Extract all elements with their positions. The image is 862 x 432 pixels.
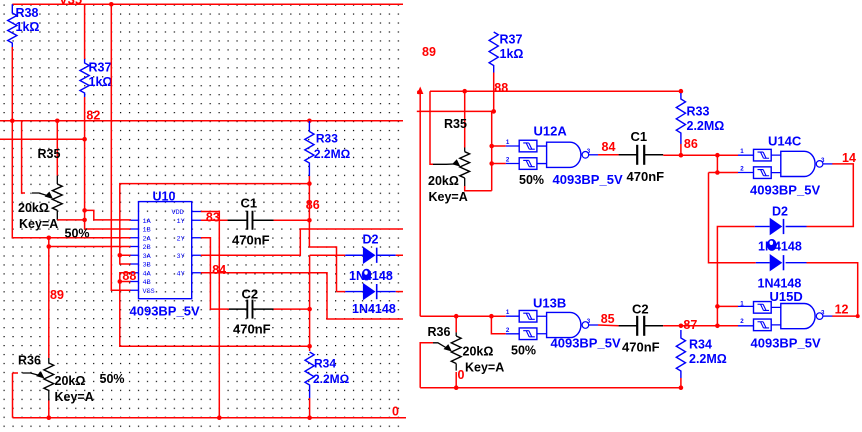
wire R33 to node 86 — [680, 144, 682, 155]
svg-text:2.2MΩ: 2.2MΩ — [313, 372, 350, 386]
junction C2 right — [307, 307, 312, 312]
wire R35 bottom lead — [56, 210, 58, 220]
wire diode2 anode lead (right) — [756, 262, 770, 264]
wire R36 bottom (right) — [455, 372, 457, 388]
svg-text:C1: C1 — [241, 195, 258, 210]
wire R35 box (right) — [430, 91, 433, 164]
svg-text:R37: R37 — [89, 61, 112, 75]
svg-text:83: 83 — [206, 210, 220, 224]
wire U15D in1 row — [717, 305, 738, 307]
svg-text:2: 2 — [506, 157, 510, 164]
wire ground rail (right) — [420, 387, 681, 389]
wire R37 down — [85, 97, 131, 229]
resistor R37 (right) — [489, 32, 498, 73]
diode 1N4148 (right second) — [770, 254, 783, 271]
junction R33 top / 82-row — [307, 119, 312, 124]
potentiometer R35 (right) — [460, 152, 470, 178]
junction U14C branch — [715, 153, 720, 158]
junction top rail — [109, 2, 114, 7]
resistor R37 (left) — [80, 59, 89, 97]
svg-text:3: 3 — [587, 148, 591, 155]
junction R34 top (right) — [679, 324, 684, 329]
svg-text:470nF: 470nF — [232, 232, 270, 247]
junction R33 bottom — [307, 181, 312, 186]
wire D2 anode lead — [345, 254, 363, 256]
wire node 86 row (right) — [663, 154, 738, 156]
wire jog to pin 1A — [85, 210, 131, 220]
svg-text:C1: C1 — [631, 129, 648, 144]
wire D2 anode lead (right) — [755, 226, 770, 228]
wire C1 right to node 86 — [274, 219, 310, 221]
wire D2 anode to 87 net — [717, 227, 754, 326]
wire R36 top lead (right) — [455, 316, 457, 332]
diode D2 (left) — [363, 247, 376, 264]
svg-text:2B: 2B — [143, 244, 151, 252]
wire node 82 row — [0, 120, 403, 122]
svg-text:3B: 3B — [143, 262, 151, 270]
wire wiper box down — [12, 373, 14, 418]
potentiometer R35 (left) — [52, 184, 62, 210]
wire C2 right to node 87 — [274, 308, 310, 310]
svg-text:C2: C2 — [632, 302, 649, 317]
IC U10 4093 quad NAND — [139, 202, 192, 299]
junction node 12 — [856, 314, 860, 318]
junction VDD-net rail — [217, 415, 222, 420]
svg-text:1A: 1A — [143, 218, 152, 226]
wire to U12A pin2 — [492, 163, 506, 165]
svg-text:R37: R37 — [500, 33, 523, 47]
svg-text:4093BP_5V: 4093BP_5V — [750, 182, 820, 197]
svg-text:4Y: 4Y — [177, 270, 185, 278]
junction 4B — [118, 279, 123, 284]
junction U12A in1 — [489, 144, 494, 149]
wire D2 cathode lead — [378, 254, 396, 256]
svg-text:Key=A: Key=A — [55, 390, 94, 404]
junction node at 210 — [82, 208, 87, 213]
svg-text:2.2MΩ: 2.2MΩ — [687, 119, 725, 133]
svg-text:0: 0 — [392, 405, 399, 419]
junction R33 top (right) — [679, 89, 684, 94]
stub U14C inputs — [738, 155, 754, 172]
svg-text:87: 87 — [683, 318, 697, 332]
junction R36 bottom (right) — [454, 385, 459, 390]
svg-text:50%: 50% — [519, 173, 544, 187]
svg-text:Key=A: Key=A — [429, 190, 468, 204]
svg-text:88: 88 — [494, 81, 508, 95]
svg-text:R34: R34 — [689, 338, 712, 352]
wire 1Y to C1 — [201, 219, 228, 221]
wire U14C in2 net — [716, 155, 718, 172]
wire R36 bottom black lead — [48, 391, 50, 401]
svg-text:3: 3 — [821, 309, 825, 316]
wire R35 top lead — [56, 121, 58, 176]
svg-text:R35: R35 — [38, 147, 61, 161]
svg-text:3: 3 — [587, 318, 591, 325]
stub U15D inputs — [738, 306, 754, 325]
wire R37 top lead — [84, 4, 86, 59]
svg-text:4B: 4B — [143, 279, 151, 287]
wire R36 wiper box (right) — [420, 343, 433, 388]
wire input net U12A — [417, 111, 492, 190]
wire 2Y to C2 — [201, 238, 229, 309]
overlap glyph (left) — [362, 269, 371, 281]
wire node 87 vertical — [309, 255, 311, 351]
svg-text:1kΩ: 1kΩ — [16, 20, 40, 34]
overlap glyph (right) — [767, 239, 777, 251]
junction U12A in2 — [489, 161, 494, 166]
svg-text:2: 2 — [740, 318, 744, 325]
svg-text:V35: V35 — [59, 0, 82, 7]
wire R37 down to input net — [493, 73, 495, 112]
svg-text:C2: C2 — [242, 287, 259, 302]
junction 2A/R36 — [47, 235, 52, 240]
svg-text:50%: 50% — [100, 372, 125, 386]
svg-text:Key=A: Key=A — [465, 361, 504, 375]
resistor R34 (left) — [305, 352, 314, 398]
wire R35 wiper box — [22, 121, 25, 193]
svg-text:R33: R33 — [316, 132, 338, 146]
junction 2B/R36 — [47, 244, 52, 249]
capacitor C1 (left) — [228, 211, 274, 230]
junction R37/139-row — [82, 137, 87, 142]
svg-text:20kΩ: 20kΩ — [18, 201, 49, 215]
wire node89 vertical — [419, 91, 421, 316]
svg-text:50%: 50% — [511, 344, 536, 358]
junction R36 top (right) — [454, 314, 459, 319]
op-gate U12A — [537, 146, 547, 164]
svg-text:2.2MΩ: 2.2MΩ — [689, 352, 727, 366]
wire R35 top lead (right) — [464, 91, 466, 147]
svg-text:R35: R35 — [444, 117, 467, 131]
svg-text:1Y: 1Y — [177, 218, 185, 226]
junction R33 bottom (right) — [679, 153, 684, 158]
svg-text:2A: 2A — [143, 235, 152, 243]
wire R35 bottom black lead (right) — [464, 178, 466, 186]
wire 4B branch — [120, 281, 131, 283]
svg-text:D2: D2 — [772, 205, 788, 219]
wire 4Y down to cut row — [201, 273, 403, 319]
wire diode2 cathode lead — [378, 291, 396, 293]
wire R38 to 2A corner — [12, 47, 131, 238]
junction U14C in2 — [715, 170, 720, 175]
svg-text:88: 88 — [122, 269, 136, 283]
svg-text:U12A: U12A — [534, 124, 568, 139]
svg-text:470nF: 470nF — [627, 169, 665, 184]
wire R36 bottom black lead (right) — [455, 364, 457, 371]
svg-text:84: 84 — [602, 140, 616, 154]
wire 3Y up to cut row — [201, 229, 403, 255]
op-gate U15D — [771, 307, 781, 325]
svg-text:U15D: U15D — [770, 289, 803, 304]
wire diode2 to node 12 — [807, 263, 858, 316]
potentiometer R36 (left) — [44, 363, 54, 391]
op-gate U14C — [771, 155, 781, 173]
svg-text:0: 0 — [458, 368, 465, 382]
svg-text:VSS: VSS — [143, 288, 155, 296]
svg-text:1: 1 — [740, 300, 744, 307]
svg-text:20kΩ: 20kΩ — [463, 345, 494, 359]
svg-text:1: 1 — [506, 139, 510, 146]
svg-text:2: 2 — [506, 327, 510, 334]
junction R34 bottom (right) — [679, 385, 684, 390]
junction R34 top — [307, 344, 312, 349]
svg-text:U10: U10 — [153, 190, 176, 204]
svg-text:1B: 1B — [143, 227, 151, 235]
wire 86-net down to diode2 — [709, 173, 756, 263]
svg-text:D2: D2 — [363, 233, 379, 247]
junction R35-bottom row — [82, 218, 87, 223]
junction R34 bottom rail — [307, 415, 312, 420]
svg-text:86: 86 — [306, 198, 320, 212]
wire 4A/4B to 346-row — [120, 273, 310, 346]
svg-text:89: 89 — [50, 288, 64, 302]
wire node 14 — [807, 164, 854, 227]
stub U13B inputs — [506, 316, 519, 334]
junction 3A — [118, 253, 123, 258]
resistor R38 — [8, 4, 17, 48]
capacitor C1 (right) — [619, 145, 664, 165]
wire U14C in2 row — [709, 172, 739, 174]
svg-text:89: 89 — [422, 45, 436, 59]
junction U15D in1 — [715, 304, 720, 309]
svg-text:4093BP_5V: 4093BP_5V — [551, 335, 621, 350]
diode D2 (right) — [770, 218, 783, 235]
wire node 88 row — [430, 90, 681, 92]
wire R35 top black lead — [56, 176, 58, 184]
wire node 84 (right) — [598, 154, 619, 156]
junction R35 top / 82-row — [55, 119, 60, 124]
wire R36 bottom lead — [48, 401, 50, 418]
svg-text:1kΩ: 1kΩ — [89, 75, 113, 89]
svg-text:2.2MΩ: 2.2MΩ — [314, 147, 351, 161]
junction R38/82-row — [10, 119, 15, 124]
svg-text:R33: R33 — [687, 105, 710, 119]
svg-text:Key=A: Key=A — [19, 217, 58, 231]
svg-text:82: 82 — [86, 108, 100, 122]
junction C1 right — [307, 218, 312, 223]
svg-text:3: 3 — [821, 157, 825, 164]
junction U13B in2 branch — [489, 314, 494, 319]
svg-text:U13B: U13B — [533, 296, 566, 311]
svg-text:R36: R36 — [428, 325, 451, 339]
stub U12A in1 — [506, 146, 519, 164]
wire node 85 — [598, 324, 619, 327]
wire VDD pin down to rail — [201, 212, 219, 418]
wire R35 bottom (right) — [465, 186, 492, 191]
resistor R34 (right) — [676, 330, 685, 378]
resistor R33 (left) — [305, 121, 314, 176]
junction R37/input-net — [491, 109, 496, 114]
svg-text:12: 12 — [835, 302, 849, 316]
svg-text:86: 86 — [684, 137, 698, 151]
wire diode D2 feed — [310, 254, 346, 256]
svg-text:50%: 50% — [65, 226, 90, 240]
svg-text:1: 1 — [740, 148, 744, 155]
wire to pin 2B — [49, 246, 131, 248]
svg-text:R34: R34 — [314, 357, 336, 371]
wire ground rail (left) — [13, 417, 407, 419]
wire R36 top black lead — [48, 358, 50, 363]
potentiometer R36 (right) — [451, 336, 461, 364]
svg-text:4093BP_5V: 4093BP_5V — [553, 172, 623, 187]
wire R34 bottom — [309, 398, 311, 418]
svg-text:2: 2 — [740, 166, 744, 173]
junction R36 bottom — [47, 415, 52, 420]
wire U13B in2 — [491, 316, 505, 334]
svg-text:3A: 3A — [143, 253, 152, 261]
wire R36 top black lead (right) — [455, 332, 457, 336]
dotted grid background (left capture) — [0, 0, 401, 432]
junction U15D in2 — [715, 324, 720, 329]
svg-text:1N4148: 1N4148 — [758, 239, 802, 253]
svg-text:U14C: U14C — [768, 134, 802, 149]
op-gate U13B — [537, 316, 547, 334]
wire VSS net from top rail — [111, 4, 131, 290]
svg-text:4093BP_5V: 4093BP_5V — [130, 303, 200, 318]
svg-text:VDD: VDD — [172, 209, 184, 217]
junction R35 top — [462, 89, 467, 94]
svg-text:1kΩ: 1kΩ — [500, 47, 524, 61]
svg-text:85: 85 — [601, 312, 615, 326]
svg-text:84: 84 — [212, 263, 226, 277]
svg-text:20kΩ: 20kΩ — [428, 174, 459, 188]
svg-text:470nF: 470nF — [233, 322, 271, 337]
wire 139 row — [0, 138, 85, 140]
svg-text:14: 14 — [842, 151, 856, 165]
wire diode2 cathode lead (right) — [786, 262, 807, 264]
wire diode2 anode lead — [345, 291, 363, 293]
wire R36 top lead — [48, 238, 50, 358]
wire 183-row to 3A/3B — [120, 184, 310, 264]
wire 3A branch — [120, 254, 131, 256]
wire to U12A pin1 — [492, 145, 506, 147]
svg-text:4A: 4A — [143, 270, 152, 278]
svg-text:4093BP_5V: 4093BP_5V — [751, 335, 821, 350]
wire node 12 — [832, 315, 857, 317]
wire R35 bottom to node — [57, 219, 84, 221]
wire node 86 vertical jog to diode2 — [309, 176, 336, 292]
svg-text:2Y: 2Y — [177, 235, 185, 243]
wire top rail (left) — [12, 3, 403, 5]
svg-text:R38: R38 — [16, 6, 39, 20]
svg-text:1: 1 — [506, 309, 510, 316]
wire R34 bottom to rail — [680, 378, 682, 388]
wire diode2 feed — [337, 291, 346, 293]
svg-text:1N4148: 1N4148 — [352, 302, 396, 316]
svg-text:3Y: 3Y — [177, 253, 185, 261]
svg-text:20kΩ: 20kΩ — [55, 374, 86, 388]
wire D2 out (cut) — [396, 254, 403, 256]
wire diode2 out (cut) — [396, 291, 403, 293]
wire R36 wiper to ground — [13, 372, 19, 374]
arrow up on node89 wire — [417, 87, 423, 95]
capacitor C2 (right) — [619, 316, 664, 336]
wire D2 cathode lead (right) — [786, 226, 807, 228]
svg-text:R36: R36 — [18, 354, 41, 368]
resistor R33 (right) — [676, 93, 685, 144]
wire R35 top black lead (right) — [464, 148, 466, 152]
wire R36-top row (right) — [420, 315, 506, 317]
capacitor C2 (left) — [229, 300, 274, 319]
wire node 87 row — [663, 325, 738, 327]
svg-text:470nF: 470nF — [622, 340, 660, 355]
diode 1N4148 (left second) — [363, 283, 376, 300]
